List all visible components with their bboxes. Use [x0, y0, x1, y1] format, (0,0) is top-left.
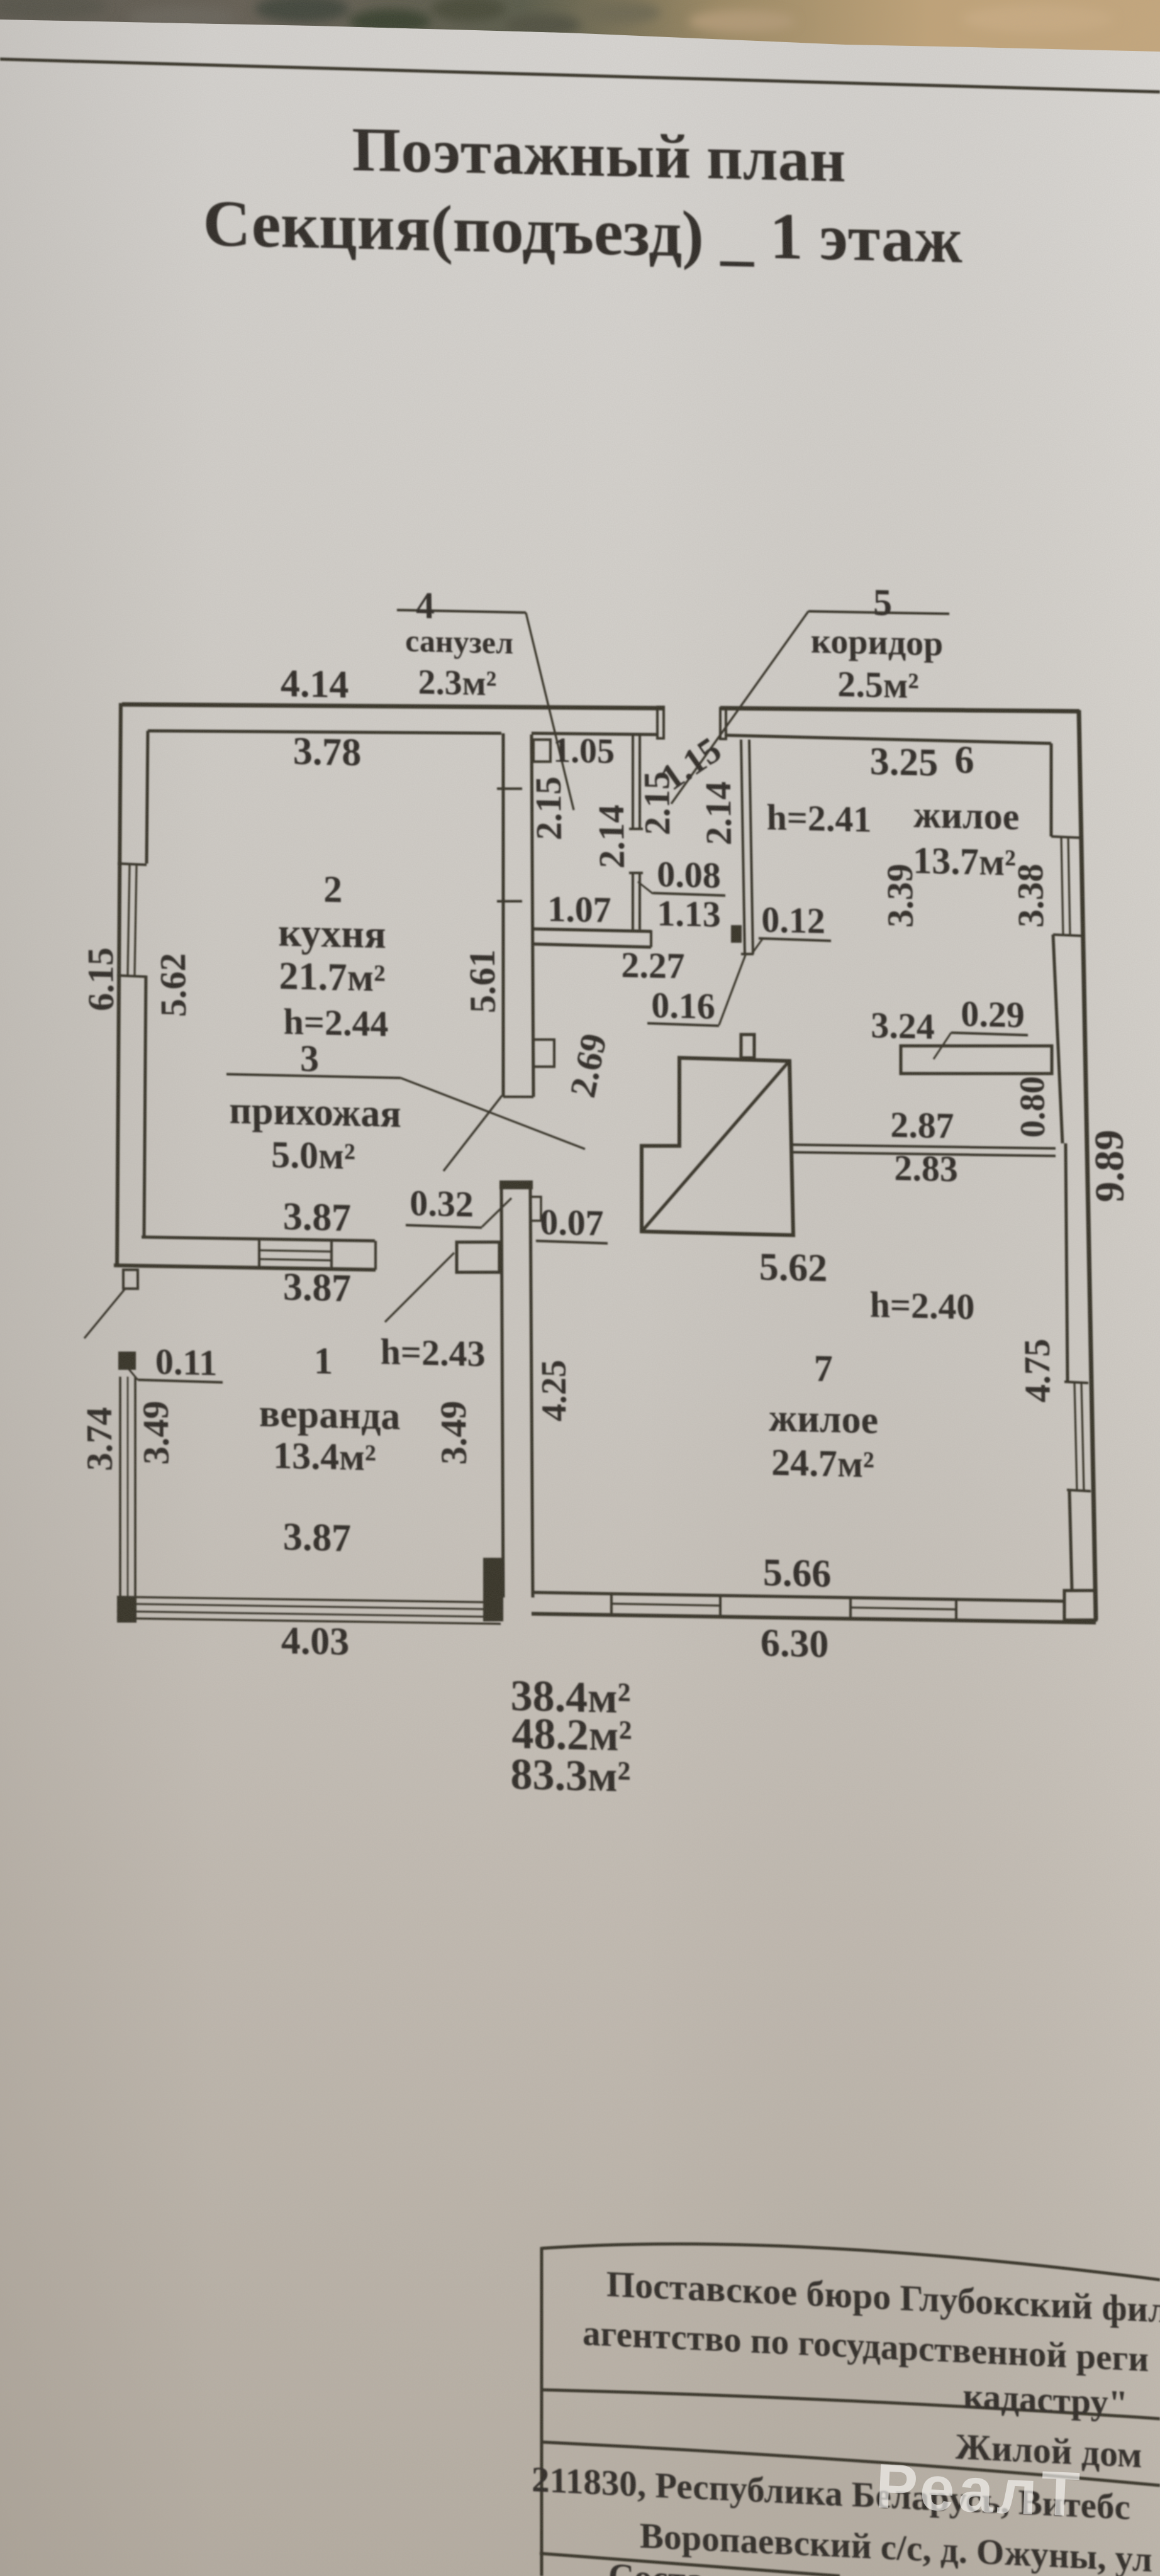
dim 0.16 underline	[647, 1023, 719, 1026]
room6 left wall line2	[749, 740, 753, 954]
hall bottom wall top line	[533, 929, 651, 931]
wall protrusion box	[533, 1039, 555, 1067]
bathroom right wall lower tick	[629, 828, 643, 831]
veranda bottom wall line1	[117, 1594, 501, 1606]
room7 window2 tick right	[955, 1599, 958, 1621]
label 4 leader	[526, 613, 574, 810]
table top border	[542, 2235, 1160, 2280]
dim 0.11 underline	[138, 1380, 223, 1382]
hall wall right line	[528, 1185, 535, 1597]
kitchen window tick left	[259, 1238, 259, 1268]
divider wall line2	[790, 1150, 1056, 1158]
wall jog tick upper	[497, 788, 522, 789]
dim 0.16 leader	[718, 953, 747, 1026]
corridor door stub left	[657, 707, 664, 738]
hall bottom wall end tick	[650, 930, 653, 947]
outer wall: top, right segment	[720, 703, 1079, 716]
dim 0.11 hook	[128, 1368, 138, 1380]
page top border line	[0, 59, 1160, 92]
left window bottom tick	[117, 975, 146, 977]
dim 0.12 underline	[759, 938, 831, 941]
room7 window2 glass	[850, 1607, 956, 1610]
room7 window1 glass	[611, 1603, 720, 1606]
veranda bottom wall line2	[117, 1601, 501, 1613]
hall bottom wall bottom line	[533, 944, 651, 947]
label 5 underline	[808, 611, 949, 614]
room6 window glass 2	[1068, 838, 1070, 935]
label 3 underline	[226, 1074, 401, 1079]
bathroom right wall line1 lower	[632, 873, 633, 930]
dim 0.07 underline	[536, 1241, 608, 1243]
room7 bottom wall bottom line	[532, 1610, 1096, 1627]
room7 window bottom tick	[1067, 1490, 1091, 1491]
kitchen top inner line	[148, 725, 501, 739]
table left border	[539, 2247, 544, 2576]
kitchen window glass 1	[259, 1250, 332, 1252]
room7 right wall inner upper	[1064, 1143, 1068, 1382]
room6 window top tick	[1051, 836, 1080, 838]
veranda bottom wall line4	[117, 1615, 501, 1627]
kitchen bottom wall inner line	[142, 1236, 375, 1243]
left window glass line 1	[126, 865, 131, 975]
room6 left wall line1	[741, 740, 745, 954]
room6 wall stub block	[731, 925, 742, 943]
hall-veranda wall top cap	[499, 1180, 533, 1190]
outer wall: top, left segment	[122, 696, 663, 716]
room6 window bottom tick	[1053, 935, 1082, 936]
room7 window glass 2	[1081, 1383, 1084, 1490]
shelf bar 3.24x0.29	[900, 1043, 1052, 1077]
leader to hall wall box	[442, 1094, 503, 1172]
table separator A	[542, 2386, 1160, 2419]
room7 right wall inner lower	[1069, 1491, 1072, 1589]
room6 window glass 1	[1061, 838, 1063, 935]
kitchen bottom wall outer line	[114, 1264, 376, 1272]
veranda left wall line2	[125, 1377, 130, 1596]
bathroom right wall upper tick2	[629, 872, 643, 875]
left wall inner, lower	[141, 975, 149, 1238]
veranda left wall bottom block	[117, 1596, 137, 1623]
table separator C	[540, 2553, 840, 2576]
dim 0.08 underline	[653, 893, 725, 896]
kitchen-bathroom wall left line	[499, 733, 508, 1097]
left wall inner, upper	[145, 731, 149, 863]
bathroom right wall line2 upper	[639, 735, 641, 829]
wall stub below kitchen corner	[123, 1269, 138, 1289]
outer wall: right	[1079, 710, 1096, 1620]
stub leader	[84, 1287, 126, 1339]
table separator B	[542, 2442, 1160, 2485]
room7 window1 tick left	[610, 1594, 613, 1615]
room6 top inner line	[725, 735, 1051, 743]
wall bottom cap	[503, 1096, 533, 1097]
dim 0.29 leader	[933, 1032, 951, 1059]
bathroom right wall line2 lower	[639, 873, 640, 930]
veranda door jamb box	[456, 1241, 499, 1273]
wall jog tick lower	[497, 901, 522, 902]
veranda right wall bottom block	[482, 1557, 504, 1622]
left window glass line 2	[133, 865, 138, 975]
dim 0.12 leader	[753, 939, 762, 953]
leader from veranda door	[384, 1251, 455, 1323]
label 3 leader	[401, 1078, 585, 1149]
svg-text:РеалТ: РеалТ	[874, 2451, 1085, 2530]
dim 0.08 hook	[638, 882, 653, 894]
kitchen window tick right	[331, 1240, 332, 1269]
dim 0.29 underline	[951, 1033, 1028, 1035]
hall wall left line	[498, 1185, 506, 1597]
veranda left wall top block	[118, 1351, 137, 1370]
room7 window glass 1	[1074, 1383, 1077, 1490]
left window top tick	[118, 863, 147, 865]
right wall inner mid	[1053, 935, 1062, 1143]
divider wall line1	[790, 1142, 1056, 1150]
bathroom door jamb box	[533, 739, 551, 762]
veranda bottom wall line3	[117, 1608, 501, 1620]
veranda left wall line1	[118, 1377, 123, 1596]
furnace diagonal	[641, 1059, 791, 1234]
bathroom right wall line1 upper	[632, 735, 634, 829]
veranda left wall line3	[133, 1377, 138, 1596]
room6 right wall inner upper	[1050, 743, 1052, 836]
kitchen wall end tick	[375, 1241, 376, 1270]
kitchen window glass 2	[259, 1258, 332, 1260]
bathroom top inner line	[532, 731, 658, 736]
room7 window top tick	[1064, 1382, 1088, 1383]
dim 0.32 leader	[481, 1197, 511, 1228]
label 4 underline	[397, 609, 526, 613]
hall wall small box	[530, 1197, 542, 1221]
outer wall: left	[110, 703, 127, 1268]
bottom right corner block	[1064, 1590, 1096, 1621]
corridor door stub right	[720, 708, 726, 739]
room7 window2 tick left	[849, 1597, 852, 1619]
label 5 leader	[669, 608, 810, 807]
furnace chimney stub	[741, 1034, 755, 1058]
kitchen-bathroom wall right line	[529, 735, 536, 1097]
furnace outline	[640, 1057, 793, 1235]
room6 left wall bottom cap	[741, 953, 754, 956]
room7 bottom wall top line	[532, 1589, 1063, 1604]
dim 0.32 underline	[406, 1225, 482, 1228]
room7 window1 tick right	[719, 1596, 722, 1617]
